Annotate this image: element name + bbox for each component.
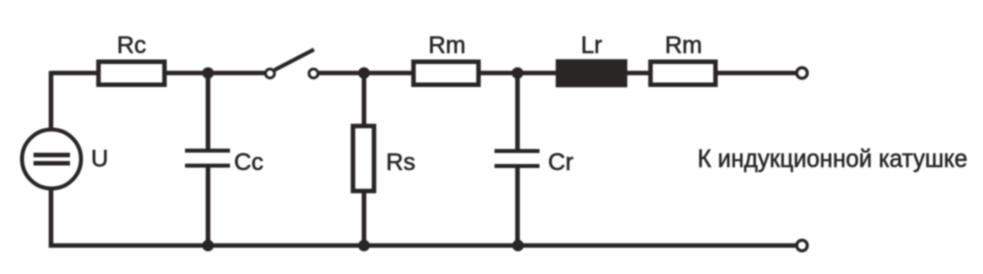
- resistor Rc: [99, 62, 165, 85]
- capacitor Cc: [185, 151, 230, 166]
- svg-text:Rs: Rs: [386, 149, 415, 176]
- svg-text:Rm: Rm: [428, 32, 465, 59]
- node C bottom: [512, 240, 524, 252]
- wire Lr to Rm: [626, 71, 649, 76]
- wire Cc top lead: [206, 73, 211, 150]
- node A bottom: [202, 240, 214, 252]
- wire Cc bottom lead: [206, 166, 211, 246]
- svg-text:Cr: Cr: [548, 149, 573, 176]
- node C top (Cr junction): [512, 67, 524, 79]
- capacitor Cr: [495, 151, 540, 166]
- wire top-left from source to Rc: [51, 71, 98, 76]
- resistor Rs: [353, 126, 374, 191]
- wire Rs top lead: [362, 73, 367, 126]
- wire switch to Rm: [319, 71, 413, 76]
- wire Rs bottom lead: [362, 193, 367, 246]
- node B top (Rs junction): [358, 67, 370, 79]
- switch S1: [266, 50, 319, 79]
- svg-text:Lr: Lr: [581, 32, 602, 59]
- svg-text:Rc: Rc: [117, 32, 146, 59]
- wire Rm to Lr: [480, 71, 557, 76]
- resistor Rm (first): [414, 62, 479, 85]
- wire left rail upper: [49, 71, 54, 130]
- terminal top right: [797, 68, 808, 79]
- resistor Rm (second): [651, 62, 716, 85]
- svg-text:К индукционной катушке: К индукционной катушке: [698, 145, 968, 173]
- inductor Lr: [558, 61, 626, 86]
- svg-text:U: U: [91, 146, 108, 173]
- wire left rail lower: [49, 188, 54, 248]
- wire Cr bottom lead: [515, 167, 520, 246]
- svg-text:Rm: Rm: [665, 32, 702, 59]
- wire Rc to switch: [165, 71, 265, 76]
- svg-text:Cc: Cc: [234, 149, 263, 176]
- wire bottom rail: [49, 243, 796, 248]
- source U: [22, 130, 81, 189]
- wire Rm to top terminal: [717, 71, 796, 76]
- terminal bottom right: [797, 240, 808, 251]
- wire Cr top lead: [515, 73, 520, 151]
- node B bottom: [358, 240, 370, 252]
- node A top (Cc junction): [202, 67, 214, 79]
